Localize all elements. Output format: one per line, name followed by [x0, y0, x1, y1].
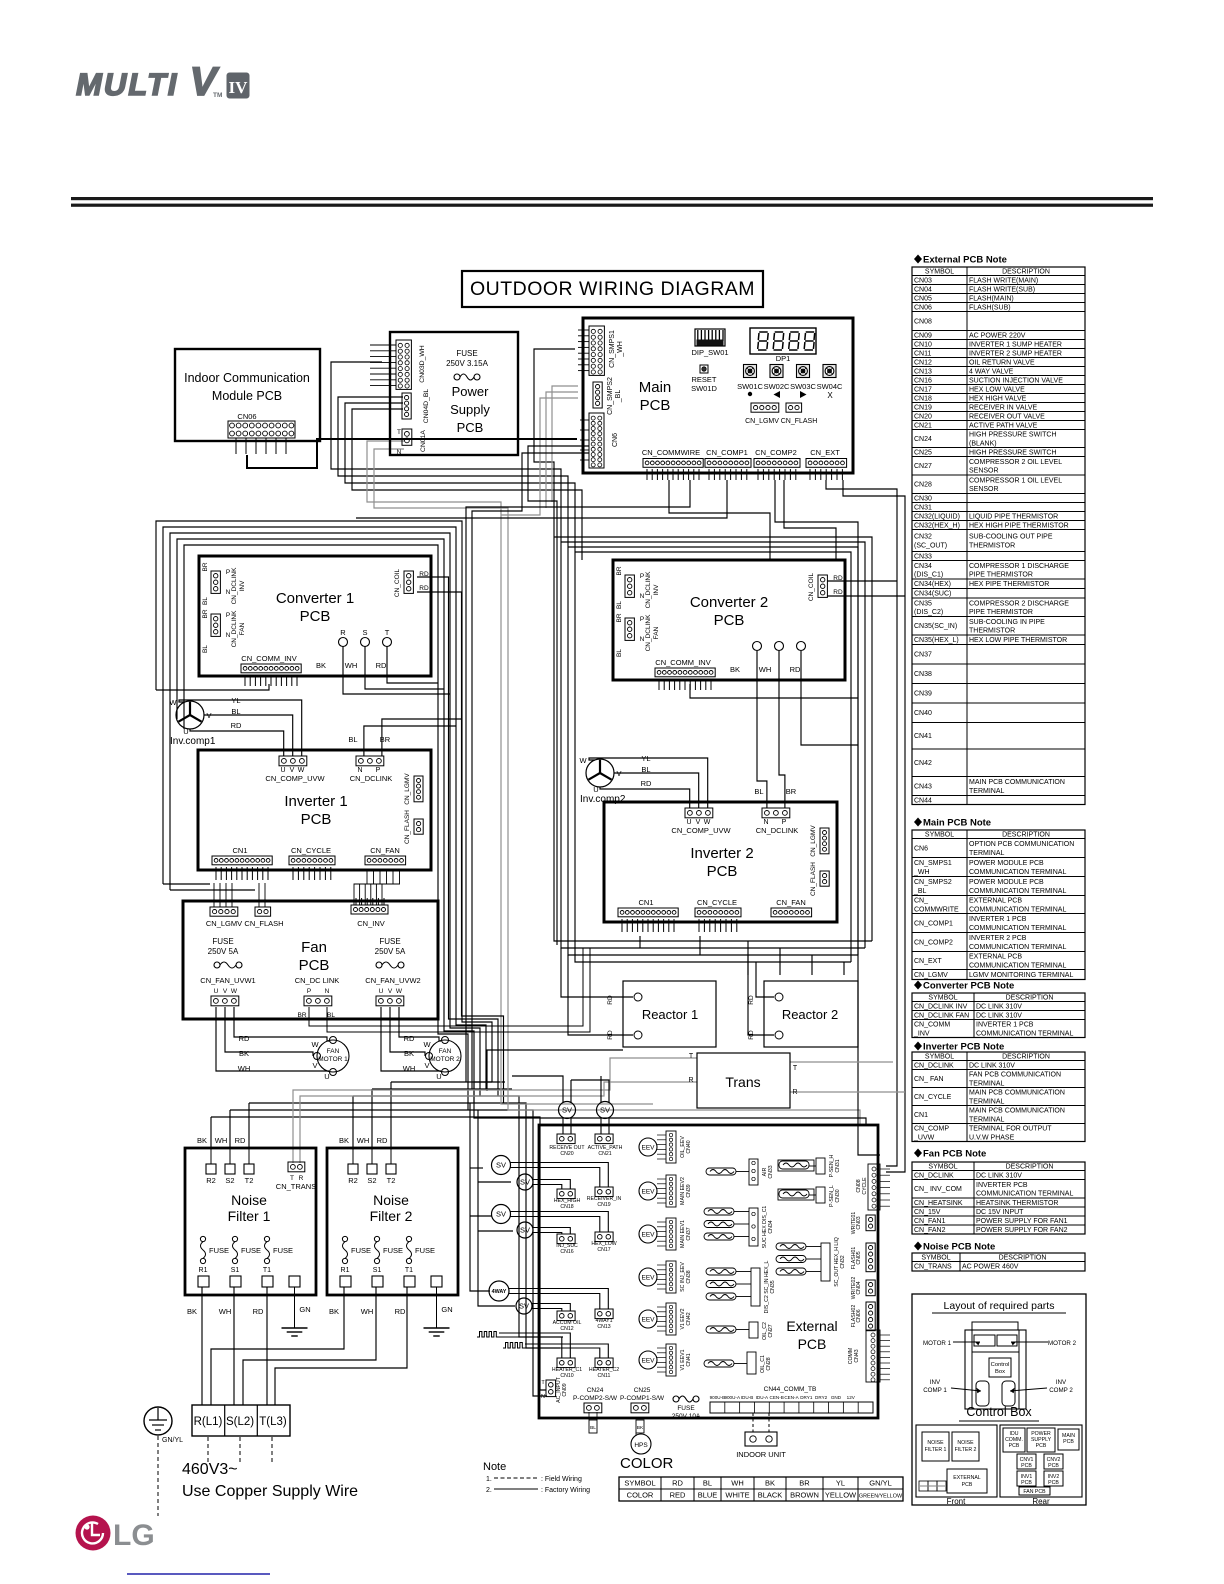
- svg-text:GN/YL: GN/YL: [869, 1479, 892, 1488]
- svg-text:R1: R1: [199, 1267, 208, 1274]
- svg-text:CN10: CN10: [914, 341, 932, 348]
- svg-text:POWER MODULE PCB: POWER MODULE PCB: [969, 879, 1044, 886]
- svg-text:TERMINAL FOR OUTPUT: TERMINAL FOR OUTPUT: [969, 1126, 1052, 1133]
- svg-text:N: N: [226, 632, 231, 639]
- svg-text:_BL: _BL: [615, 390, 622, 404]
- svg-text:Noise: Noise: [373, 1192, 409, 1208]
- svg-text:OIL RETURN VALVE: OIL RETURN VALVE: [969, 359, 1035, 366]
- svg-text:WH: WH: [345, 661, 358, 670]
- svg-text:COLOR: COLOR: [627, 1491, 654, 1500]
- svg-text:PCB: PCB: [640, 397, 671, 414]
- svg-text:Fan PCB Note: Fan PCB Note: [923, 1149, 986, 1160]
- svg-text:W: W: [169, 698, 177, 707]
- svg-text:P: P: [226, 569, 230, 576]
- svg-text:CN_COIL: CN_COIL: [808, 573, 815, 602]
- svg-text:CN_SMPS2: CN_SMPS2: [607, 377, 614, 415]
- svg-text:CN32: CN32: [914, 534, 932, 541]
- svg-text:CN20: CN20: [560, 1151, 573, 1157]
- svg-text:P-COMP2-S/W: P-COMP2-S/W: [573, 1395, 618, 1402]
- svg-text:CN_COMP_UVW: CN_COMP_UVW: [671, 826, 731, 835]
- svg-text:CN28: CN28: [914, 482, 932, 489]
- svg-text:Note: Note: [483, 1461, 506, 1473]
- svg-text:W: W: [579, 756, 587, 765]
- svg-text:T2: T2: [245, 1176, 254, 1185]
- svg-text:INVERTER PCB: INVERTER PCB: [976, 1182, 1028, 1189]
- svg-text:FAN: FAN: [239, 622, 246, 635]
- svg-text:CN_SMPS2: CN_SMPS2: [914, 879, 952, 886]
- svg-text:LIQUID PIPE THERMISTOR: LIQUID PIPE THERMISTOR: [969, 513, 1058, 520]
- svg-text:COMMWRITE: COMMWRITE: [914, 906, 959, 913]
- svg-text:RD: RD: [404, 1034, 415, 1043]
- svg-text:RD: RD: [419, 571, 429, 578]
- svg-text:V: V: [290, 767, 295, 774]
- svg-text:W: W: [231, 988, 238, 995]
- svg-text:CN03D_WH: CN03D_WH: [419, 345, 426, 382]
- svg-text:SUCTION INJECTION VALVE: SUCTION INJECTION VALVE: [969, 377, 1063, 384]
- svg-text:WH: WH: [759, 665, 772, 674]
- svg-text:RD: RD: [231, 721, 242, 730]
- svg-text:BL: BL: [616, 601, 623, 609]
- svg-text:V: V: [388, 988, 393, 995]
- svg-text:U: U: [280, 767, 285, 774]
- svg-text:BK: BK: [329, 1307, 339, 1316]
- svg-text:GN: GN: [441, 1305, 452, 1314]
- svg-text:CN41: CN41: [914, 733, 932, 740]
- svg-text:SW02C: SW02C: [764, 382, 790, 391]
- svg-text:Layout of required parts: Layout of required parts: [944, 1300, 1055, 1312]
- svg-text:THERMISTOR: THERMISTOR: [969, 542, 1015, 549]
- svg-text:AC POWER 220V: AC POWER 220V: [969, 332, 1026, 339]
- svg-text:Reactor 1: Reactor 1: [642, 1007, 698, 1022]
- svg-text:ACTIVE PATH VALVE: ACTIVE PATH VALVE: [969, 422, 1038, 429]
- svg-text:External: External: [786, 1318, 837, 1334]
- svg-text:250V 5A: 250V 5A: [208, 947, 239, 956]
- svg-text:: Factory Wiring: : Factory Wiring: [541, 1487, 590, 1494]
- svg-text:RED: RED: [670, 1491, 686, 1500]
- svg-text:PCB: PCB: [1048, 1480, 1059, 1486]
- svg-text:HPS: HPS: [634, 1442, 648, 1449]
- svg-text:CN_EXT: CN_EXT: [914, 958, 942, 965]
- svg-text:EEV: EEV: [641, 1275, 655, 1282]
- svg-text:LGMV MONITORING TERMINAL: LGMV MONITORING TERMINAL: [969, 972, 1073, 979]
- svg-text:CN_LGMV: CN_LGMV: [745, 418, 779, 425]
- svg-text:R: R: [340, 628, 346, 637]
- svg-text:Main PCB Note: Main PCB Note: [923, 818, 991, 829]
- svg-text:CN_FAN: CN_FAN: [776, 898, 806, 907]
- svg-text:_WH: _WH: [617, 341, 624, 358]
- svg-text:RD: RD: [235, 1136, 246, 1145]
- svg-text:DESCRIPTION: DESCRIPTION: [1002, 268, 1050, 275]
- svg-text:CN41: CN41: [686, 1353, 692, 1366]
- svg-text:Power: Power: [452, 384, 490, 399]
- svg-text:CN34: CN34: [914, 563, 932, 570]
- svg-text:U.V.W PHASE: U.V.W PHASE: [969, 1134, 1015, 1141]
- svg-text:WH: WH: [731, 1479, 744, 1488]
- svg-text:PIPE THERMISTOR: PIPE THERMISTOR: [969, 609, 1033, 616]
- svg-text:R(L1): R(L1): [194, 1416, 223, 1428]
- svg-text:CN17: CN17: [914, 386, 932, 393]
- svg-text:PCB: PCB: [300, 608, 331, 625]
- svg-text:CN34(SUC): CN34(SUC): [914, 591, 951, 598]
- svg-text:RD: RD: [376, 661, 387, 670]
- svg-text:BR: BR: [799, 1479, 810, 1488]
- svg-text:P: P: [226, 612, 230, 619]
- svg-text:CN43: CN43: [854, 1349, 860, 1362]
- svg-text:CN33: CN33: [768, 1165, 774, 1178]
- svg-text:CN19: CN19: [914, 404, 932, 411]
- svg-text:U: U: [183, 727, 188, 736]
- svg-text:CN17: CN17: [597, 1247, 610, 1253]
- svg-text:CN25: CN25: [634, 1387, 651, 1394]
- svg-text:FUSE: FUSE: [351, 1246, 371, 1255]
- svg-text:WH: WH: [219, 1307, 232, 1316]
- svg-text:RD: RD: [672, 1479, 683, 1488]
- svg-text:_INV: _INV: [913, 1030, 930, 1037]
- svg-text:RD: RD: [833, 575, 843, 582]
- svg-text:INDOOR UNIT: INDOOR UNIT: [736, 1450, 786, 1459]
- svg-text:CN_COMP_UVW: CN_COMP_UVW: [265, 774, 325, 783]
- svg-text:T: T: [385, 628, 390, 637]
- svg-text:: Field Wiring: : Field Wiring: [541, 1476, 582, 1483]
- svg-text:FLASH02: FLASH02: [851, 1305, 857, 1328]
- svg-text:CN_COMM_INV: CN_COMM_INV: [241, 654, 296, 663]
- svg-text:BR: BR: [202, 562, 209, 571]
- svg-text:12V: 12V: [847, 1395, 856, 1400]
- svg-text:YELLOW: YELLOW: [825, 1491, 857, 1500]
- svg-text:Inv.comp2: Inv.comp2: [580, 794, 626, 805]
- svg-text:CN30: CN30: [914, 495, 932, 502]
- svg-text:CN_DCLINK: CN_DCLINK: [914, 1172, 954, 1179]
- svg-text:DESCRIPTION: DESCRIPTION: [1002, 831, 1050, 838]
- svg-text:INV: INV: [653, 584, 660, 596]
- svg-text:RD: RD: [748, 995, 755, 1005]
- svg-text:CN1: CN1: [914, 1112, 928, 1119]
- svg-text:EXTERNAL: EXTERNAL: [953, 1475, 981, 1481]
- svg-text:OPTION PCB COMMUNICATION: OPTION PCB COMMUNICATION: [969, 841, 1074, 848]
- svg-text:N: N: [541, 1394, 545, 1400]
- svg-text:POWER SUPPLY FOR FAN1: POWER SUPPLY FOR FAN1: [976, 1218, 1068, 1225]
- svg-text:THERMISTOR: THERMISTOR: [969, 628, 1015, 635]
- svg-text:INVERTER 1 SUMP HEATER: INVERTER 1 SUMP HEATER: [969, 341, 1062, 348]
- svg-text:CN_COMMWIRE: CN_COMMWIRE: [642, 448, 700, 457]
- svg-text:P: P: [640, 616, 644, 623]
- svg-text:FUSE: FUSE: [241, 1246, 261, 1255]
- svg-text:CN_COMM: CN_COMM: [914, 1022, 950, 1029]
- svg-text:CN_DCLINK: CN_DCLINK: [350, 774, 393, 783]
- svg-text:CN01A: CN01A: [420, 430, 427, 452]
- svg-text:P: P: [640, 573, 644, 580]
- svg-text:Filter 1: Filter 1: [228, 1208, 271, 1224]
- svg-text:CN1: CN1: [638, 898, 653, 907]
- svg-text:CN04: CN04: [914, 286, 932, 293]
- svg-text:MAIN PCB COMMUNICATION: MAIN PCB COMMUNICATION: [969, 1090, 1065, 1097]
- svg-text:YL: YL: [836, 1479, 845, 1488]
- svg-text:CN_DCLINK: CN_DCLINK: [231, 567, 238, 605]
- svg-text:CN38: CN38: [686, 1270, 692, 1283]
- svg-text:CEN-A: CEN-A: [784, 1395, 799, 1400]
- svg-text:460V3~: 460V3~: [182, 1461, 238, 1478]
- svg-text:LG: LG: [113, 1519, 155, 1552]
- svg-text:FAN: FAN: [439, 1048, 452, 1055]
- svg-text:BL: BL: [348, 735, 357, 744]
- svg-text:FLASH(SUB): FLASH(SUB): [969, 304, 1011, 311]
- svg-text:CN_COMP: CN_COMP: [914, 1126, 949, 1133]
- svg-text:Control: Control: [991, 1362, 1010, 1368]
- svg-text:OUTDOOR WIRING DIAGRAM: OUTDOOR WIRING DIAGRAM: [470, 278, 755, 300]
- svg-text:TM: TM: [213, 92, 222, 99]
- svg-text:HEX HIGH VALVE: HEX HIGH VALVE: [969, 395, 1027, 402]
- svg-text:W: W: [423, 1040, 431, 1049]
- svg-text:SW01D: SW01D: [691, 384, 717, 393]
- svg-text:U: U: [214, 988, 219, 995]
- svg-text:CN32(LIQUID): CN32(LIQUID): [914, 513, 960, 520]
- svg-text:CN32: CN32: [840, 1255, 846, 1268]
- svg-text:WH: WH: [215, 1136, 228, 1145]
- svg-text:GN: GN: [299, 1305, 310, 1314]
- svg-text:Use Copper Supply Wire: Use Copper Supply Wire: [182, 1483, 358, 1500]
- svg-text:CN_FAN_UVW2: CN_FAN_UVW2: [365, 976, 420, 985]
- svg-text:CN34: CN34: [768, 1220, 774, 1233]
- svg-text:Inv.comp1: Inv.comp1: [170, 736, 216, 747]
- svg-text:CN_SMPS1: CN_SMPS1: [609, 330, 616, 368]
- svg-text:CN09: CN09: [914, 332, 932, 339]
- svg-text:COMMUNICATION TERMINAL: COMMUNICATION TERMINAL: [969, 944, 1066, 951]
- svg-text:Control Box: Control Box: [966, 1405, 1032, 1419]
- svg-text:EEV: EEV: [641, 1189, 655, 1196]
- svg-text:CN_LGMV: CN_LGMV: [914, 972, 948, 979]
- svg-text:EEV: EEV: [641, 1358, 655, 1365]
- svg-text:GND: GND: [831, 1395, 842, 1400]
- svg-text:FLASH WRITE(SUB): FLASH WRITE(SUB): [969, 286, 1035, 293]
- svg-text:Reactor 2: Reactor 2: [782, 1007, 838, 1022]
- svg-text:PCB: PCB: [1021, 1463, 1032, 1469]
- svg-text:CN_ INV_COM: CN_ INV_COM: [914, 1186, 962, 1193]
- svg-text:PCB: PCB: [301, 811, 332, 828]
- svg-text:WH: WH: [403, 1064, 416, 1073]
- svg-text:CN31: CN31: [835, 1159, 841, 1172]
- svg-text:MAIN PCB COMMUNICATION: MAIN PCB COMMUNICATION: [969, 779, 1065, 786]
- svg-text:HIGH PRESSURE SWITCH: HIGH PRESSURE SWITCH: [969, 432, 1057, 439]
- svg-text:S1: S1: [231, 1267, 240, 1274]
- svg-text:CN25: CN25: [914, 449, 932, 456]
- svg-text:Rear: Rear: [1032, 1497, 1050, 1506]
- svg-text:CN37: CN37: [914, 652, 932, 659]
- svg-text:SUB-COOLING OUT PIPE: SUB-COOLING OUT PIPE: [969, 534, 1053, 541]
- svg-text:EEV: EEV: [641, 1145, 655, 1152]
- svg-text:CN16: CN16: [560, 1249, 573, 1255]
- svg-text:CN21: CN21: [598, 1151, 611, 1157]
- svg-text:V: V: [696, 819, 701, 826]
- svg-text:INVERTER 2 PCB: INVERTER 2 PCB: [969, 935, 1027, 942]
- svg-text:(BLANK): (BLANK): [969, 440, 997, 447]
- svg-text:U: U: [436, 1072, 441, 1081]
- svg-text:CN_COIL: CN_COIL: [394, 569, 401, 598]
- svg-text:FUSE: FUSE: [379, 937, 400, 946]
- svg-text:Fan: Fan: [301, 939, 327, 956]
- svg-text:Converter 2: Converter 2: [690, 594, 768, 611]
- svg-text:4 WAY VALVE: 4 WAY VALVE: [969, 368, 1014, 375]
- svg-text:FUSE: FUSE: [209, 1246, 229, 1255]
- svg-text:CN_COMP1: CN_COMP1: [914, 920, 953, 927]
- svg-text:(DIS_C1): (DIS_C1): [914, 572, 943, 579]
- svg-text:CN_FAN2: CN_FAN2: [914, 1227, 946, 1234]
- svg-text:BROWN: BROWN: [790, 1491, 819, 1500]
- svg-text:Indoor Communication: Indoor Communication: [184, 371, 310, 385]
- svg-text:U: U: [379, 988, 384, 995]
- svg-text:CN35(HEX_L): CN35(HEX_L): [914, 637, 959, 644]
- svg-text:Inverter 2: Inverter 2: [690, 845, 753, 862]
- svg-text:FILTER 1: FILTER 1: [925, 1447, 947, 1453]
- svg-text:R: R: [688, 1077, 693, 1084]
- svg-text:POWER SUPPLY FOR FAN2: POWER SUPPLY FOR FAN2: [976, 1227, 1068, 1234]
- svg-text:FUSE: FUSE: [273, 1246, 293, 1255]
- svg-text:PCB: PCB: [962, 1482, 973, 1488]
- svg-text:U: U: [324, 1072, 329, 1081]
- svg-text:CN6: CN6: [914, 845, 928, 852]
- svg-text:Converter PCB Note: Converter PCB Note: [923, 981, 1014, 992]
- svg-text:CN_FLASH: CN_FLASH: [404, 810, 411, 844]
- svg-text:INV: INV: [1056, 1379, 1067, 1386]
- svg-text:COMPRESSOR 1 DISCHARGE: COMPRESSOR 1 DISCHARGE: [969, 563, 1069, 570]
- svg-text:HEATSINK THERMISTOR: HEATSINK THERMISTOR: [976, 1200, 1058, 1207]
- svg-text:BR: BR: [616, 613, 623, 622]
- svg-text:COMMUNICATION TERMINAL: COMMUNICATION TERMINAL: [969, 925, 1066, 932]
- svg-text:BK: BK: [316, 661, 326, 670]
- svg-text:RD: RD: [748, 1030, 755, 1040]
- svg-text:PCB: PCB: [1036, 1443, 1047, 1449]
- svg-text:FUSE: FUSE: [456, 349, 477, 358]
- svg-text:P: P: [376, 767, 381, 774]
- svg-text:SYMBOL: SYMBOL: [921, 1254, 950, 1261]
- svg-text:CN_DCLINK: CN_DCLINK: [914, 1062, 954, 1069]
- svg-text:FUSE: FUSE: [415, 1246, 435, 1255]
- svg-text:FAN PCB: FAN PCB: [1023, 1489, 1046, 1495]
- svg-text:CN18: CN18: [914, 395, 932, 402]
- svg-text:CN09: CN09: [562, 1383, 568, 1396]
- svg-text:N: N: [640, 593, 645, 600]
- svg-text:CN11: CN11: [598, 1373, 611, 1379]
- svg-text:RD: RD: [239, 1034, 250, 1043]
- svg-text:HEX LOW PIPE THERMISTOR: HEX LOW PIPE THERMISTOR: [969, 637, 1067, 644]
- svg-text:BL: BL: [327, 1012, 335, 1019]
- svg-text:CN13: CN13: [597, 1324, 610, 1330]
- svg-text:N: N: [357, 767, 362, 774]
- svg-text:BL: BL: [703, 1479, 712, 1488]
- svg-text:CN24: CN24: [587, 1387, 604, 1394]
- svg-text:External PCB Note: External PCB Note: [923, 255, 1007, 266]
- svg-text:SYMBOL: SYMBOL: [928, 1163, 957, 1170]
- svg-text:CN10: CN10: [560, 1373, 573, 1379]
- svg-text:250V 5A: 250V 5A: [375, 947, 406, 956]
- svg-text:_WH: _WH: [913, 869, 930, 876]
- svg-text:FAN: FAN: [653, 626, 660, 639]
- svg-text:BK: BK: [187, 1307, 197, 1316]
- svg-text:MOTOR 2: MOTOR 2: [1048, 1340, 1077, 1347]
- svg-text:SYMBOL: SYMBOL: [928, 994, 957, 1001]
- svg-text:CN_HEATSINK: CN_HEATSINK: [914, 1200, 963, 1207]
- svg-text:DESCRIPTION: DESCRIPTION: [1006, 1163, 1054, 1170]
- svg-text:COMMUNICATION TERMINAL: COMMUNICATION TERMINAL: [976, 1030, 1073, 1037]
- svg-text:CN44: CN44: [914, 797, 932, 804]
- svg-text:COMMUNICATION TERMINAL: COMMUNICATION TERMINAL: [969, 888, 1066, 895]
- svg-text:CN39: CN39: [686, 1184, 692, 1197]
- svg-text:CN_COMP2: CN_COMP2: [755, 448, 797, 457]
- svg-text:CN_SMPS1: CN_SMPS1: [914, 860, 952, 867]
- svg-text:SYMBOL: SYMBOL: [925, 268, 954, 275]
- svg-text:AC POWER 460V: AC POWER 460V: [962, 1264, 1019, 1271]
- svg-text:CN37: CN37: [686, 1227, 692, 1240]
- svg-text:SV: SV: [520, 1226, 530, 1235]
- svg-text:T: T: [793, 1065, 798, 1072]
- svg-text:GN/YL: GN/YL: [162, 1437, 183, 1444]
- svg-text:BL: BL: [590, 1425, 596, 1431]
- svg-text:CN33: CN33: [914, 553, 932, 560]
- svg-text:BL: BL: [616, 649, 623, 657]
- svg-text:COMP 2: COMP 2: [1049, 1387, 1073, 1394]
- svg-text:CN34(HEX): CN34(HEX): [914, 581, 951, 588]
- svg-text:IDU-B: IDU-B: [741, 1395, 754, 1400]
- svg-text:Main: Main: [639, 379, 672, 396]
- svg-text:P-COMP1-S/W: P-COMP1-S/W: [620, 1395, 665, 1402]
- svg-text:FLASH WRITE(MAIN): FLASH WRITE(MAIN): [969, 277, 1038, 284]
- svg-text:CN_FAN: CN_FAN: [370, 846, 400, 855]
- svg-text:S(L2): S(L2): [226, 1416, 254, 1428]
- svg-text:CYCLE: CYCLE: [862, 1177, 868, 1195]
- svg-text:EEV: EEV: [641, 1317, 655, 1324]
- svg-text:R2: R2: [348, 1176, 358, 1185]
- svg-text:CN_FAN1: CN_FAN1: [914, 1218, 946, 1225]
- svg-text:BR: BR: [786, 787, 797, 796]
- svg-text:CN_LGMV: CN_LGMV: [206, 919, 242, 928]
- svg-text:CN35(SC_IN): CN35(SC_IN): [914, 623, 957, 630]
- svg-text:DRY2: DRY2: [815, 1395, 828, 1400]
- svg-text:CN42: CN42: [686, 1312, 692, 1325]
- svg-text:2.: 2.: [486, 1487, 492, 1494]
- svg-text:CN_DC LINK: CN_DC LINK: [295, 976, 340, 985]
- svg-text:CN_FLASH: CN_FLASH: [244, 919, 283, 928]
- svg-text:CN30: CN30: [835, 1189, 841, 1202]
- svg-text:Front: Front: [947, 1497, 966, 1506]
- svg-text:U: U: [686, 819, 691, 826]
- svg-text:TERMINAL: TERMINAL: [969, 850, 1005, 857]
- svg-text:CN28: CN28: [766, 1357, 772, 1370]
- svg-text:Inverter 1: Inverter 1: [284, 793, 347, 810]
- svg-text:DC LINK 310V: DC LINK 310V: [969, 1062, 1015, 1069]
- svg-text:X: X: [827, 391, 833, 400]
- svg-text:T: T: [290, 1175, 294, 1182]
- svg-text:MOTOR 1: MOTOR 1: [923, 1340, 952, 1347]
- svg-text:DC LINK 310V: DC LINK 310V: [976, 1012, 1022, 1019]
- svg-text:EEV: EEV: [641, 1232, 655, 1239]
- svg-text:CN_COMP2: CN_COMP2: [914, 939, 953, 946]
- svg-text:CN_FLASH: CN_FLASH: [781, 418, 818, 425]
- svg-text:BR: BR: [202, 609, 209, 618]
- svg-text:RECEIVER IN VALVE: RECEIVER IN VALVE: [969, 404, 1038, 411]
- svg-text:CN27: CN27: [768, 1324, 774, 1337]
- svg-text:COMMUNICATION TERMINAL: COMMUNICATION TERMINAL: [969, 869, 1066, 876]
- svg-text:_BL: _BL: [913, 888, 927, 895]
- svg-text:W: W: [311, 1040, 319, 1049]
- svg-text:Converter 1: Converter 1: [276, 590, 354, 607]
- svg-text:CN38: CN38: [914, 671, 932, 678]
- svg-text:PCB: PCB: [1021, 1480, 1032, 1486]
- svg-text:CN03: CN03: [914, 277, 932, 284]
- svg-text:FLASH(MAIN): FLASH(MAIN): [969, 295, 1014, 302]
- svg-text:BLACK: BLACK: [758, 1491, 783, 1500]
- svg-text:FUSE: FUSE: [677, 1405, 695, 1412]
- svg-text:SV: SV: [496, 1210, 506, 1219]
- svg-text:RD: RD: [419, 585, 429, 592]
